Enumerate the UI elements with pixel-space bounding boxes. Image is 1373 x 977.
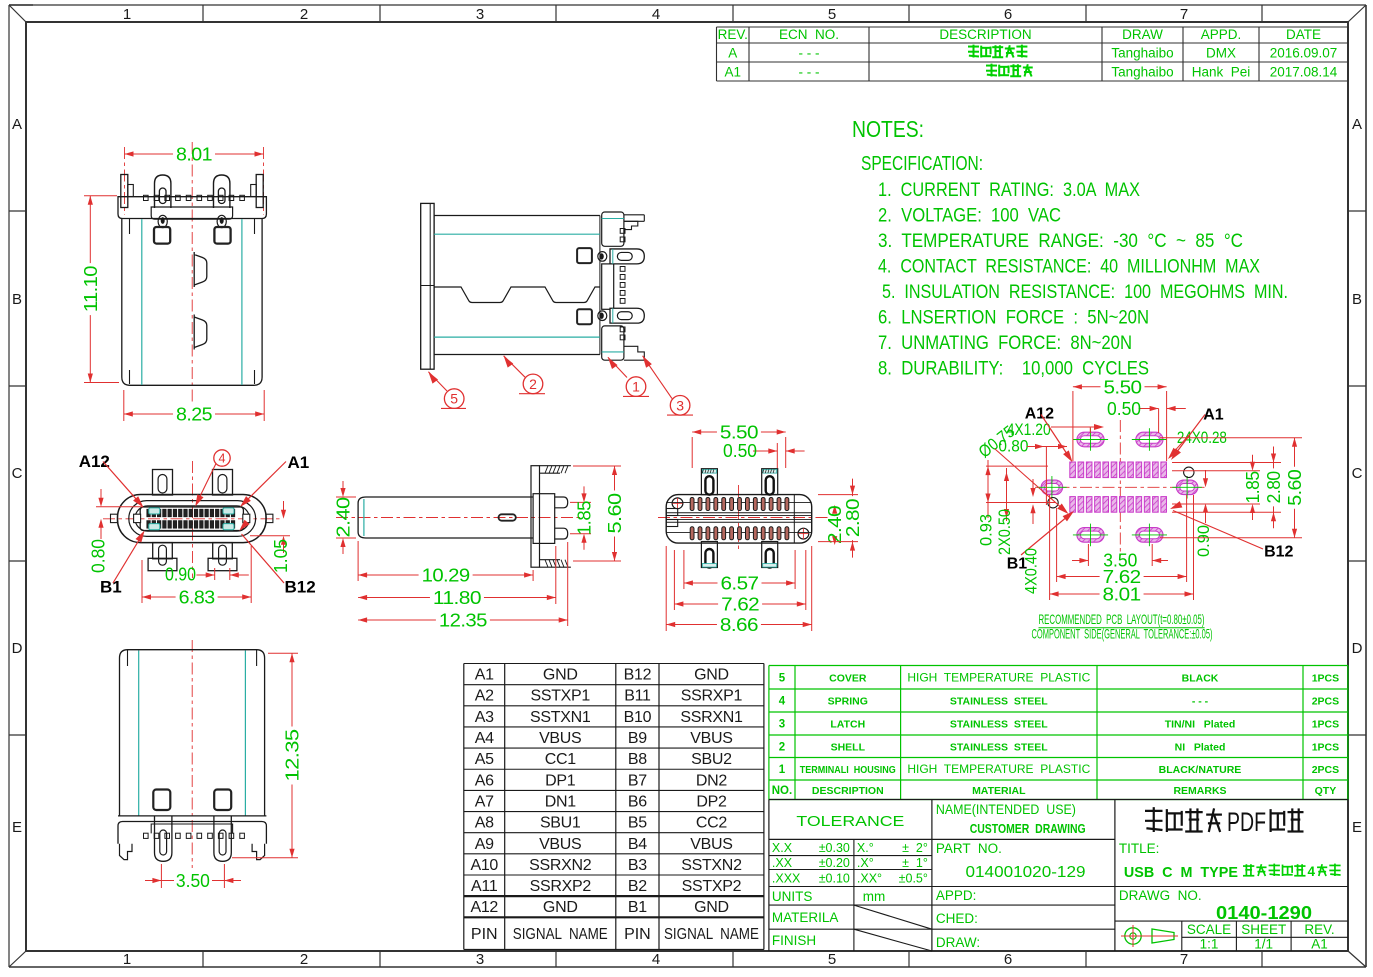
svg-text:QTY: QTY xyxy=(1315,785,1337,797)
svg-text:7. UNMATING FORCE: 8N~20N: 7. UNMATING FORCE: 8N~20N xyxy=(878,332,1132,354)
svg-text:4: 4 xyxy=(652,6,660,23)
svg-text:4: 4 xyxy=(779,696,786,708)
svg-text:A10: A10 xyxy=(470,857,498,874)
svg-text:B6: B6 xyxy=(628,793,647,810)
svg-text:3. TEMPERATURE RANGE: -30: 3. TEMPERATURE RANGE: -30 °C ~ 85 °C xyxy=(878,230,1243,252)
svg-text:VBUS: VBUS xyxy=(690,836,732,853)
svg-text:SSTXP1: SSTXP1 xyxy=(530,688,590,705)
svg-text:TOLERANCE: TOLERANCE xyxy=(796,813,904,830)
svg-text:DRAWG NO.: DRAWG NO. xyxy=(1119,888,1202,903)
svg-text:- - -: - - - xyxy=(1192,696,1209,708)
svg-text:SCALE: SCALE xyxy=(1187,922,1231,937)
svg-text:PIN: PIN xyxy=(471,926,498,943)
svg-text:1: 1 xyxy=(779,764,786,776)
svg-text:A7: A7 xyxy=(475,793,494,810)
svg-text:5.60: 5.60 xyxy=(605,493,625,534)
svg-text:.X°: .X° xyxy=(857,856,874,870)
svg-text:2: 2 xyxy=(529,376,537,392)
svg-text:B: B xyxy=(1352,291,1362,308)
svg-text:MATERIAL: MATERIAL xyxy=(972,785,1026,797)
svg-text:6: 6 xyxy=(1004,951,1012,968)
svg-text:1: 1 xyxy=(632,379,640,395)
svg-text:DRAW: DRAW xyxy=(1122,27,1163,42)
svg-text:4: 4 xyxy=(219,452,226,466)
svg-text:B: B xyxy=(12,291,22,308)
svg-text:4X0.40: 4X0.40 xyxy=(1022,548,1041,594)
svg-text:0.93: 0.93 xyxy=(977,514,996,546)
svg-text:±0.30: ±0.30 xyxy=(819,841,850,855)
svg-text:SSRXP1: SSRXP1 xyxy=(681,688,743,705)
svg-text:A1: A1 xyxy=(475,667,494,684)
svg-text:A1: A1 xyxy=(1311,937,1328,952)
svg-text:5.50: 5.50 xyxy=(1104,377,1143,397)
svg-text:1PCS: 1PCS xyxy=(1312,672,1339,684)
svg-text:A12: A12 xyxy=(1025,406,1054,423)
svg-text:TIN/NI Plated: TIN/NI Plated xyxy=(1165,719,1236,731)
svg-text:5: 5 xyxy=(779,672,786,684)
svg-text:NAME(INTENDED USE): NAME(INTENDED USE) xyxy=(936,802,1076,817)
svg-text:3: 3 xyxy=(676,397,684,413)
svg-text:B10: B10 xyxy=(624,709,652,726)
svg-text:FINISH: FINISH xyxy=(772,933,816,948)
svg-text:DN1: DN1 xyxy=(545,793,577,810)
svg-text:±0.5°: ±0.5° xyxy=(899,872,928,886)
svg-text:11.10: 11.10 xyxy=(81,266,101,313)
svg-text:PART NO.: PART NO. xyxy=(936,841,1002,856)
svg-text:8.25: 8.25 xyxy=(176,405,213,425)
svg-text:5: 5 xyxy=(828,951,836,968)
svg-text:A: A xyxy=(12,116,22,133)
svg-text:6.83: 6.83 xyxy=(179,588,216,608)
svg-text:C: C xyxy=(12,465,23,482)
svg-text:2.80: 2.80 xyxy=(843,499,863,538)
svg-text:CC1: CC1 xyxy=(545,751,577,768)
svg-text:SSRXP2: SSRXP2 xyxy=(530,878,592,895)
svg-text:HIGH TEMPERATURE PLASTIC: HIGH TEMPERATURE PLASTIC xyxy=(907,762,1090,776)
svg-text:1PCS: 1PCS xyxy=(1312,741,1339,753)
svg-text:11.80: 11.80 xyxy=(433,588,482,608)
svg-text:0.90: 0.90 xyxy=(165,565,196,585)
svg-text:± 1°: ± 1° xyxy=(902,856,928,870)
svg-text:BLACK/NATURE: BLACK/NATURE xyxy=(1159,764,1242,776)
svg-text:DESCRIPTION: DESCRIPTION xyxy=(939,27,1031,42)
svg-text:APPD.: APPD. xyxy=(1201,27,1242,42)
svg-text:SSTXN1: SSTXN1 xyxy=(530,709,591,726)
svg-text:MATERILA: MATERILA xyxy=(772,910,839,925)
svg-text:1. CURRENT RATING: 3.0A MA: 1. CURRENT RATING: 3.0A MAX xyxy=(878,179,1140,201)
svg-text:A8: A8 xyxy=(475,815,494,832)
svg-text:12.35: 12.35 xyxy=(283,729,303,782)
svg-text:5.50: 5.50 xyxy=(720,423,759,443)
svg-text:A2: A2 xyxy=(475,688,494,705)
svg-text:2.80: 2.80 xyxy=(1264,471,1284,503)
svg-text:- - -: - - - xyxy=(799,46,820,61)
svg-text:2: 2 xyxy=(300,951,308,968)
svg-text:B12: B12 xyxy=(1264,544,1293,561)
svg-text:B4: B4 xyxy=(628,836,647,853)
svg-text:5. INSULATION RESISTANCE: 1: 5. INSULATION RESISTANCE: 100 MEGOHMS MI… xyxy=(882,281,1288,303)
svg-text:8.01: 8.01 xyxy=(1103,585,1142,605)
svg-text:NI Plated: NI Plated xyxy=(1175,741,1226,753)
svg-text:DMX: DMX xyxy=(1206,46,1236,61)
svg-text:A3: A3 xyxy=(475,709,494,726)
svg-text:.XX°: .XX° xyxy=(857,872,882,886)
svg-text:B1: B1 xyxy=(628,899,647,916)
svg-text:2PCS: 2PCS xyxy=(1312,764,1339,776)
svg-text:GND: GND xyxy=(694,667,729,684)
svg-text:USB C M TYPE: USB C M TYPE xyxy=(1124,864,1238,881)
svg-text:SSRXN2: SSRXN2 xyxy=(529,857,592,874)
svg-text:SPRING: SPRING xyxy=(828,696,868,708)
svg-text:3: 3 xyxy=(779,719,785,731)
svg-text:STAINLESS STEEL: STAINLESS STEEL xyxy=(950,741,1048,753)
svg-text:GND: GND xyxy=(694,899,729,916)
svg-text:SPECIFICATION:: SPECIFICATION: xyxy=(861,153,983,175)
svg-text:2016.09.07: 2016.09.07 xyxy=(1270,46,1338,61)
svg-text:6: 6 xyxy=(1004,6,1012,23)
svg-text:B11: B11 xyxy=(624,688,651,705)
svg-text:0140-1290: 0140-1290 xyxy=(1216,903,1312,923)
svg-text:E: E xyxy=(1352,819,1362,836)
svg-text:SSTXP2: SSTXP2 xyxy=(682,878,742,895)
svg-text:BLACK: BLACK xyxy=(1182,672,1219,684)
svg-text:HIGH TEMPERATURE PLASTIC: HIGH TEMPERATURE PLASTIC xyxy=(907,670,1090,684)
svg-text:5: 5 xyxy=(450,391,458,407)
svg-text:7: 7 xyxy=(1180,6,1188,23)
svg-text:CHED:: CHED: xyxy=(936,911,978,926)
svg-text:.XXX: .XXX xyxy=(772,872,801,886)
svg-text:SIGNAL NAME: SIGNAL NAME xyxy=(513,926,608,943)
svg-text:1/1: 1/1 xyxy=(1254,937,1273,952)
svg-text:DP2: DP2 xyxy=(696,793,727,810)
svg-text:GND: GND xyxy=(543,899,578,916)
svg-text:7: 7 xyxy=(1180,951,1188,968)
svg-text:3: 3 xyxy=(476,951,484,968)
svg-text:4. CONTACT RESISTANCE: 40: 4. CONTACT RESISTANCE: 40 MILLIONHM MAX xyxy=(878,256,1260,278)
svg-text:A12: A12 xyxy=(79,452,110,471)
svg-text:COVER: COVER xyxy=(829,672,867,684)
svg-text:STAINLESS STEEL: STAINLESS STEEL xyxy=(950,719,1048,731)
svg-text:NOTES:: NOTES: xyxy=(852,116,924,142)
svg-text:SHEET: SHEET xyxy=(1241,922,1286,937)
svg-text:B2: B2 xyxy=(628,878,647,895)
svg-text:UNITS: UNITS xyxy=(772,889,813,904)
svg-text:SBU2: SBU2 xyxy=(691,751,732,768)
svg-text:B9: B9 xyxy=(628,730,647,747)
svg-text:B12: B12 xyxy=(285,578,316,597)
svg-text:8.66: 8.66 xyxy=(720,615,759,635)
svg-text:A: A xyxy=(1352,116,1362,133)
svg-text:±0.20: ±0.20 xyxy=(819,856,850,870)
svg-text:TERMINALI HOUSING: TERMINALI HOUSING xyxy=(800,765,896,776)
svg-text:Tanghaibo: Tanghaibo xyxy=(1111,46,1173,61)
svg-text:1.85: 1.85 xyxy=(1243,471,1263,503)
svg-text:DESCRIPTION: DESCRIPTION xyxy=(812,785,884,797)
svg-text:3.50: 3.50 xyxy=(176,871,210,891)
svg-text:mm: mm xyxy=(863,889,886,904)
svg-text:12.35: 12.35 xyxy=(439,611,488,631)
svg-text:C: C xyxy=(1352,465,1363,482)
svg-text:4: 4 xyxy=(1308,864,1316,879)
svg-text:6.57: 6.57 xyxy=(721,574,760,594)
svg-text:B3: B3 xyxy=(628,857,647,874)
svg-text:VBUS: VBUS xyxy=(690,730,732,747)
svg-text:REV.: REV. xyxy=(1304,922,1334,937)
svg-text:REV.: REV. xyxy=(718,27,748,42)
svg-text:E: E xyxy=(12,819,22,836)
svg-text:2.40: 2.40 xyxy=(334,497,354,538)
svg-text:10.29: 10.29 xyxy=(422,566,471,586)
svg-text:3: 3 xyxy=(476,6,484,23)
svg-text:DATE: DATE xyxy=(1286,27,1321,42)
svg-text:2: 2 xyxy=(779,741,785,753)
svg-text:VBUS: VBUS xyxy=(539,836,581,853)
svg-text:VBUS: VBUS xyxy=(539,730,581,747)
svg-text:D: D xyxy=(12,640,23,657)
svg-text:A9: A9 xyxy=(475,836,494,853)
svg-text:A6: A6 xyxy=(475,772,494,789)
svg-text:1PCS: 1PCS xyxy=(1312,719,1339,731)
svg-text:0.90: 0.90 xyxy=(1194,525,1213,557)
svg-text:NO.: NO. xyxy=(772,785,792,797)
svg-text:± 2°: ± 2° xyxy=(902,841,928,855)
svg-text:STAINLESS STEEL: STAINLESS STEEL xyxy=(950,696,1048,708)
svg-text:ECN NO.: ECN NO. xyxy=(779,27,839,42)
svg-text:A12: A12 xyxy=(470,899,498,916)
svg-text:4: 4 xyxy=(652,951,660,968)
svg-text:B12: B12 xyxy=(624,667,652,684)
svg-text:A11: A11 xyxy=(471,878,498,895)
svg-text:LATCH: LATCH xyxy=(830,719,865,731)
svg-text:A1: A1 xyxy=(1203,407,1224,424)
svg-text:SHELL: SHELL xyxy=(831,741,866,753)
svg-text:2017.08.14: 2017.08.14 xyxy=(1270,65,1338,80)
svg-text:B5: B5 xyxy=(628,815,647,832)
svg-text:2X0.50: 2X0.50 xyxy=(995,509,1014,555)
svg-text:D: D xyxy=(1352,640,1363,657)
svg-text:B1: B1 xyxy=(100,578,122,597)
svg-text:REMARKS: REMARKS xyxy=(1173,785,1226,797)
svg-text:DRAW:: DRAW: xyxy=(936,935,980,950)
svg-text:B7: B7 xyxy=(628,772,647,789)
svg-text:6. LNSERTION FORCE : 5N~20: 6. LNSERTION FORCE : 5N~20N xyxy=(878,307,1149,329)
svg-text:2: 2 xyxy=(300,6,308,23)
svg-text:A4: A4 xyxy=(475,730,494,747)
svg-text:SIGNAL NAME: SIGNAL NAME xyxy=(664,926,759,943)
svg-text:±0.10: ±0.10 xyxy=(819,872,850,886)
svg-text:A1: A1 xyxy=(288,453,310,472)
svg-text:X.°: X.° xyxy=(857,841,874,855)
svg-text:Tanghaibo: Tanghaibo xyxy=(1111,65,1173,80)
svg-text:DP1: DP1 xyxy=(545,772,576,789)
svg-text:7.62: 7.62 xyxy=(721,595,760,615)
svg-text:Hank Pei: Hank Pei xyxy=(1192,65,1251,80)
svg-text:X.X: X.X xyxy=(772,841,793,855)
svg-text:PIN: PIN xyxy=(624,926,651,943)
svg-text:A5: A5 xyxy=(475,751,494,768)
svg-text:1.05: 1.05 xyxy=(271,539,291,573)
svg-text:8.01: 8.01 xyxy=(176,145,213,165)
svg-text:5: 5 xyxy=(828,6,836,23)
svg-text:B8: B8 xyxy=(628,751,647,768)
svg-text:GND: GND xyxy=(543,667,578,684)
svg-text:2PCS: 2PCS xyxy=(1312,696,1339,708)
svg-text:- - -: - - - xyxy=(799,65,820,80)
svg-text:1:1: 1:1 xyxy=(1200,937,1219,952)
svg-text:1: 1 xyxy=(123,951,131,968)
svg-text:0.80: 0.80 xyxy=(998,437,1028,456)
svg-text:SBU1: SBU1 xyxy=(540,815,581,832)
svg-text:APPD:: APPD: xyxy=(936,888,977,903)
svg-text:PDF: PDF xyxy=(1227,807,1266,837)
svg-text:CC2: CC2 xyxy=(696,815,728,832)
svg-text:DN2: DN2 xyxy=(696,772,728,789)
svg-text:COMPONENT SIDE(GENERAL TOLER: COMPONENT SIDE(GENERAL TOLERANCE:±0.05) xyxy=(1032,626,1213,642)
svg-text:A1: A1 xyxy=(724,65,741,80)
svg-text:8. DURABILITY: 10,000 CYC: 8. DURABILITY: 10,000 CYCLES xyxy=(878,358,1149,380)
svg-text:A: A xyxy=(728,46,737,61)
svg-text:0.50: 0.50 xyxy=(1107,399,1141,419)
svg-text:CUSTOMER DRAWING: CUSTOMER DRAWING xyxy=(970,821,1086,836)
svg-text:1: 1 xyxy=(123,6,131,23)
svg-text:.XX: .XX xyxy=(772,856,793,870)
svg-text:0.80: 0.80 xyxy=(89,539,109,573)
svg-text:0.50: 0.50 xyxy=(723,441,757,461)
svg-text:1.85: 1.85 xyxy=(575,501,595,535)
svg-text:SSTXN2: SSTXN2 xyxy=(681,857,742,874)
svg-text:SSRXN1: SSRXN1 xyxy=(680,709,743,726)
svg-text:TITLE:: TITLE: xyxy=(1119,841,1160,856)
svg-text:014001020-129: 014001020-129 xyxy=(966,864,1086,881)
svg-text:2. VOLTAGE: 100 VAC: 2. VOLTAGE: 100 VAC xyxy=(878,205,1061,227)
svg-text:5.60: 5.60 xyxy=(1285,469,1305,506)
